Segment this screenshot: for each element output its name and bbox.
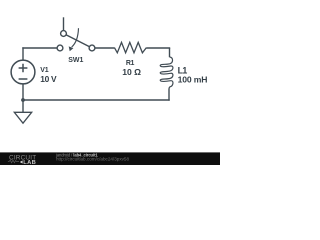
resistor R1: [114, 42, 146, 52]
svg-text:10 V: 10 V: [40, 74, 57, 84]
label SW1: [68, 57, 83, 64]
svg-text:http://circuitlab.com/c/abc24/: http://circuitlab.com/c/abc24/3pxv58: [56, 157, 129, 162]
svg-text:LAB: LAB: [23, 160, 36, 165]
value label 10 Ω: [122, 67, 141, 77]
svg-text:10 Ω: 10 Ω: [122, 67, 141, 77]
voltage source V1: [11, 60, 35, 84]
label L1: [178, 65, 188, 75]
svg-text:SW1: SW1: [68, 57, 83, 64]
svg-text:V1: V1: [40, 67, 48, 74]
junction node at V1 / bottom rail / ground: [21, 98, 25, 102]
svg-text:100 mH: 100 mH: [178, 75, 208, 85]
inductor L1: [160, 57, 173, 89]
footer CircuitLab logo: resistor zigzag: [8, 160, 19, 163]
value label 100 mH: [178, 75, 208, 85]
label R1: [126, 60, 135, 67]
switch SW1: [57, 17, 95, 51]
value label 10 V: [40, 74, 57, 84]
switch SW1 top throw stub: [63, 17, 65, 30]
switch SW1 lever: [66, 35, 89, 47]
switch SW1 top throw terminal: [61, 31, 67, 37]
wire: V1 negative terminal down to bottom rail node: [22, 84, 24, 100]
wire: resistor R1 to top-right corner: [146, 47, 170, 49]
wire: node down to ground symbol: [22, 100, 24, 112]
wire: top rail from corner to switch SW1 left terminal: [22, 47, 57, 49]
ground: [14, 112, 31, 123]
footer CircuitLab logo: LAB: [20, 160, 36, 166]
wire: inductor L1 bottom to bottom-right corner: [168, 89, 170, 101]
footer CircuitLab logo: CIRCUIT: [9, 155, 36, 162]
footer bar: [0, 152, 220, 165]
footer text: circuit URL: [56, 157, 129, 162]
svg-text:R1: R1: [126, 60, 135, 67]
footer text: user / circuit name: [55, 152, 98, 157]
label V1: [40, 67, 48, 74]
wire: switch SW1 common to resistor R1: [95, 47, 114, 49]
switch SW1 actuation arrow: [72, 28, 79, 47]
switch SW1 right (common) terminal: [89, 45, 95, 51]
wire: bottom rail from right corner to node at V1 branch: [23, 99, 170, 101]
wire: V1 positive terminal up to top-left corner: [22, 47, 24, 60]
switch SW1 left terminal: [57, 45, 63, 51]
wire: top-right corner down to inductor L1: [169, 48, 171, 57]
